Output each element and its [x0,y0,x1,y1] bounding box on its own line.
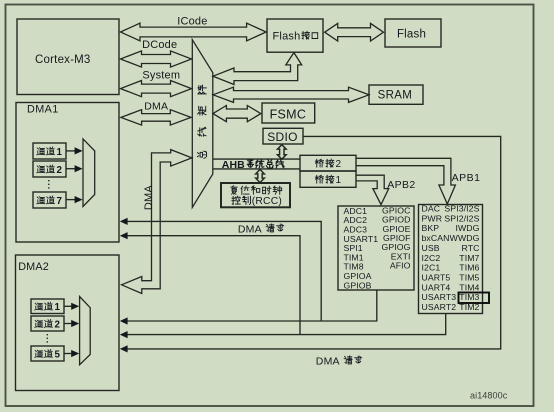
svg-text:Flash: Flash [397,28,426,40]
svg-text:(RCC): (RCC) [252,196,282,207]
DMA2 channel box 通道5 [31,346,64,361]
svg-text:RTC: RTC [462,243,480,253]
label AHB系统总线 [222,159,284,171]
block SRAM [369,85,423,104]
svg-text:SDIO: SDIO [267,130,298,144]
DMA2 channel dots [46,334,48,344]
svg-text:Flash: Flash [273,31,301,43]
svg-text:APB2: APB2 [387,179,415,191]
block APB2 peripherals [338,206,414,291]
block 桥接2 [300,155,356,171]
svg-text:IWDG: IWDG [455,223,479,233]
svg-text:SPI2/I2S: SPI2/I2S [444,213,479,223]
bus System arrow [121,81,192,97]
label ai14800c [470,391,508,401]
DMA2 mux [80,297,91,365]
block Flash [385,19,441,47]
arrow channel to mux [66,147,83,154]
svg-text:BKP: BKP [422,223,440,233]
svg-text:SRAM: SRAM [378,90,412,102]
svg-text:WWDG: WWDG [450,233,480,243]
wire DMA1 request line 2 (from APB1 junction) [120,232,300,335]
svg-text:UART5: UART5 [422,272,451,282]
svg-text:APB1: APB1 [452,172,481,184]
bus matrix 总线矩阵 [192,40,213,208]
svg-text:DCode: DCode [142,39,177,51]
svg-text:DMA2: DMA2 [18,261,49,273]
block DMA1 [16,103,119,243]
svg-text:FSMC: FSMC [270,107,307,121]
svg-text:ai14800c: ai14800c [470,391,508,401]
svg-text:TIM7: TIM7 [459,253,479,263]
arrow channel to mux [64,303,79,310]
DMA1 mux [83,139,95,207]
svg-text:UART4: UART4 [422,282,451,292]
svg-text:bxCAN: bxCAN [422,233,450,243]
svg-text:I2C2: I2C2 [422,253,441,263]
label DMA [144,101,168,113]
svg-text:DMA1: DMA1 [27,104,59,116]
arrow 桥接2 to APB1 (bent down) [356,158,455,204]
svg-text:1: 1 [57,147,63,158]
block Flash 接口 [267,19,323,52]
svg-text:DMA: DMA [143,185,155,211]
svg-text:DAC: DAC [422,204,441,214]
bus DMA arrow [121,110,191,125]
svg-text:SPI3/I2S: SPI3/I2S [444,204,479,214]
svg-text:I2C1: I2C1 [422,263,441,273]
DMA1 channel box 通道7 [33,192,66,208]
svg-text:PWR: PWR [422,213,443,223]
arrow Flash接口-Flash [325,23,384,41]
svg-text:TIM3: TIM3 [459,292,479,302]
wire DMA1 request line 1 (from APB2 junction) [120,218,321,321]
svg-text:AHB: AHB [222,159,245,171]
DMA2 to bus-matrix bent arrow [122,150,192,294]
arrow 桥接1 to APB2 (bent down) [356,175,389,204]
svg-text:2: 2 [336,159,342,170]
bus DCode arrow [121,51,192,67]
highlight box TIM3 [459,293,490,304]
wire APB2 box to DMA2 request [120,290,377,325]
svg-text:TIM5: TIM5 [459,272,479,282]
svg-text:1: 1 [336,175,342,186]
arrow SDIO to AHB [278,145,287,160]
AHB system bus lines [213,159,300,169]
block FSMC [262,103,315,123]
block SDIO [263,128,303,144]
label DMA (rotated) [143,185,155,211]
svg-text:USART2: USART2 [422,302,457,312]
block 桥接1 [300,171,356,187]
svg-text:USB: USB [422,243,440,253]
bus ICode arrow [121,23,267,41]
svg-text:DMA: DMA [238,224,262,236]
arrow channel to mux [66,196,83,203]
label ICode [177,15,207,27]
DMA1 channel dots [48,180,50,190]
svg-text:DMA: DMA [316,355,340,367]
arrow channel to mux [64,320,79,327]
svg-text:AFIO: AFIO [390,260,411,270]
DMA2 channel box 通道2 [31,316,64,331]
svg-text:2: 2 [55,319,61,330]
block APB1 peripherals [419,204,483,314]
svg-text:Cortex-M3: Cortex-M3 [35,54,90,66]
svg-text:7: 7 [57,196,63,207]
block DMA2 [16,255,120,391]
svg-text:2: 2 [57,165,63,176]
svg-text:5: 5 [55,349,61,360]
label DMA 请求 (lower) [316,355,362,367]
arrow channel to mux [66,165,83,172]
svg-text:DMA: DMA [144,101,168,113]
svg-text:USART3: USART3 [422,292,457,302]
svg-text:TIM4: TIM4 [459,282,479,292]
arrow channel to mux [64,350,79,357]
label APB2 [387,179,415,191]
arrow bus-matrix to SRAM [213,87,369,102]
DMA1 channel box 通道2 [33,161,66,177]
svg-text:System: System [142,70,180,82]
arrow bus-matrix to FSMC [213,106,261,122]
svg-text:1: 1 [55,302,61,313]
block 复位和时钟控制(RCC) [221,183,290,207]
wire APB1 box to DMA2 request [120,314,446,339]
svg-text:TIM6: TIM6 [459,263,479,273]
wire SDIO to DMA2 request [120,136,501,352]
DMA1 channel box 通道1 [33,143,66,159]
label APB1 [452,172,481,184]
block Cortex-M3 [17,19,119,95]
label System [142,70,180,82]
arrow bus-matrix to Flash接口 (bent) [213,53,302,85]
DMA2 channel box 通道1 [31,299,64,314]
svg-text:ICode: ICode [177,15,207,27]
label DCode [142,39,177,51]
bus matrix label 总线矩阵 (rotated) [197,85,206,158]
arrow AHB to RCC [256,169,265,182]
label DMA 请求 (upper) [238,224,284,236]
svg-text:GPIOB: GPIOB [344,280,372,290]
